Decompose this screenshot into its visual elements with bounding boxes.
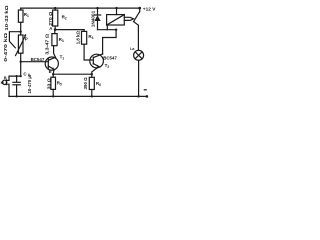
wire relay to T2 collector	[103, 30, 117, 54]
potentiometer P	[18, 35, 23, 53]
node A	[54, 28, 57, 31]
resistor R1	[20, 8, 22, 10]
svg-text:0-470 kΩ: 0-470 kΩ	[3, 33, 9, 62]
wire bottom rail 0V	[9, 95, 147, 97]
node +12V terminal	[138, 7, 141, 10]
svg-text:BC547: BC547	[103, 55, 117, 60]
wire emitter bus B	[53, 73, 92, 75]
resistor R3	[54, 30, 56, 34]
arrow of potentiometer P	[16, 35, 26, 55]
relay contact arrow	[124, 17, 133, 20]
lamp La	[137, 25, 139, 50]
svg-text:3,3-47 Ω: 3,3-47 Ω	[45, 33, 50, 55]
transistor T2	[90, 54, 104, 68]
capacitor C	[16, 76, 18, 82]
wire left chain down to mic/cap node	[9, 62, 21, 81]
svg-text:10-470 µF: 10-470 µF	[27, 73, 32, 93]
svg-text:BC547: BC547	[31, 57, 45, 62]
diode 1N4001	[96, 7, 98, 9]
resistor R6	[89, 77, 94, 89]
node cap tap	[20, 75, 22, 77]
terminal bottom right	[146, 95, 149, 98]
microphone M	[2, 80, 6, 84]
svg-text:M: M	[1, 81, 4, 85]
svg-text:33 Ω: 33 Ω	[46, 78, 51, 90]
node cap to rail	[16, 95, 18, 97]
node emitter T2	[91, 73, 93, 75]
svg-text:B: B	[4, 76, 7, 80]
svg-text:390 Ω: 390 Ω	[83, 77, 88, 90]
wire T1 base	[21, 61, 49, 63]
svg-text:B: B	[49, 69, 52, 74]
wire node A to R4	[55, 29, 84, 31]
resistor R4	[83, 30, 85, 32]
svg-text:+12 V: +12 V	[143, 6, 156, 12]
svg-text:10-33 kΩ: 10-33 kΩ	[4, 5, 10, 30]
resistor R2	[54, 8, 56, 10]
svg-text:270 Ω: 270 Ω	[48, 11, 53, 26]
svg-text:1,8 kΩ: 1,8 kΩ	[76, 31, 81, 45]
node R1/P junction	[20, 31, 22, 33]
wire diode link	[98, 29, 117, 31]
svg-text:1N4001: 1N4001	[90, 10, 95, 27]
node base tap T1	[20, 61, 22, 63]
wire top rail +12V	[21, 7, 140, 9]
relay coil K1	[107, 15, 125, 25]
node rail dot near R2	[54, 7, 56, 9]
svg-text:P: P	[25, 36, 28, 41]
relay switch arm	[139, 8, 141, 12]
resistor R5	[52, 74, 54, 77]
wire P wiper feed	[9, 32, 20, 48]
transistor T1	[45, 57, 58, 70]
node B	[52, 73, 54, 75]
